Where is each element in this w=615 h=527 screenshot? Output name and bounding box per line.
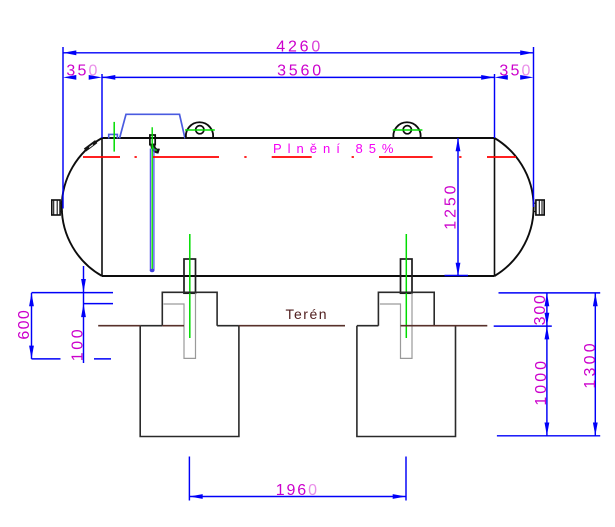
left pedestal centerline: [189, 234, 191, 338]
3560 left extension line: [101, 74, 103, 138]
ground line left: [98, 325, 140, 327]
1960 right extension line: [405, 457, 407, 501]
fill pipe valve body: [150, 135, 155, 145]
tank shell bottom line: [102, 275, 495, 277]
lifting lug 1: [186, 122, 213, 138]
right foundation block: [357, 326, 456, 437]
coupling centerline: [113, 122, 115, 152]
manhole trapezoid: [120, 114, 186, 138]
fill pipe elbow: [153, 144, 159, 152]
svg-text:1960: 1960: [276, 482, 319, 499]
tank right dished head: [495, 138, 534, 276]
svg-text:350: 350: [499, 63, 532, 80]
right extension line top: [499, 292, 601, 294]
dip tube end cap: [150, 269, 155, 272]
svg-text:Plnění 85%: Plnění 85%: [273, 141, 400, 156]
1960 left extension line: [188, 457, 190, 501]
svg-text:4260: 4260: [276, 38, 323, 55]
right anchor pocket (grout): [380, 293, 412, 358]
svg-text:300: 300: [532, 293, 549, 325]
right pedestal centerline: [405, 234, 407, 338]
tank shell top line: [102, 137, 495, 139]
3560 right extension line: [494, 74, 496, 138]
fill level line (red dash-dot): [83, 156, 120, 158]
right pedestal leg: [401, 259, 413, 293]
right extension line bottom: [497, 435, 600, 437]
right nozzle flange: [536, 200, 544, 215]
right extension line ground: [494, 325, 552, 327]
dimension 4260 line: [63, 52, 534, 54]
dimension 100: [83, 266, 85, 363]
lug 2 centerline: [393, 129, 423, 131]
dimension 600: [31, 293, 33, 359]
dimension 1250 line: [457, 138, 459, 276]
lug 1 centerline: [185, 129, 215, 131]
dimension 350 left: [63, 75, 76, 80]
svg-text:600: 600: [16, 309, 33, 340]
weld band mark on left head: [85, 142, 96, 150]
right nozzle neck: [533, 202, 536, 204]
coupling square on top left: [109, 134, 118, 138]
100 lower extension line: [84, 303, 113, 305]
dimension 1300 line: [594, 293, 596, 436]
4260 right extension line: [533, 47, 535, 207]
600 top extension line: [32, 292, 114, 294]
right pedestal outline: [378, 292, 434, 325]
tank left seam: [101, 138, 103, 276]
svg-text:Terén: Terén: [286, 306, 329, 322]
tank right seam: [494, 138, 496, 276]
svg-text:3560: 3560: [277, 62, 324, 79]
svg-text:100: 100: [70, 327, 87, 362]
dip tube walls: [149, 149, 151, 271]
svg-text:1000: 1000: [533, 358, 550, 406]
left foundation block: [140, 326, 239, 437]
dip tube centerline: [151, 127, 153, 270]
dimension 1960 line: [189, 496, 406, 498]
svg-text:350: 350: [66, 63, 99, 80]
svg-text:1250: 1250: [443, 182, 460, 229]
left pedestal outline: [162, 292, 217, 325]
1250 bottom extension dash: [445, 275, 469, 277]
left pedestal leg: [184, 259, 196, 293]
600 bottom extension line: [32, 358, 61, 360]
dimension 3560 line: [102, 76, 495, 78]
left nozzle neck: [60, 202, 63, 204]
dimension 300 / 1000 line: [546, 293, 548, 436]
ground line middle: [239, 325, 345, 327]
ground line right: [401, 325, 488, 327]
4260 left extension line: [62, 47, 64, 209]
tank left dished head: [62, 138, 102, 276]
left anchor pocket (grout): [164, 293, 196, 358]
left nozzle flange: [52, 200, 60, 215]
dimension 350 right: [495, 75, 508, 80]
lifting lug 2: [393, 122, 420, 138]
svg-text:1300: 1300: [582, 340, 599, 388]
ground line inside left pedestal: [162, 325, 184, 327]
